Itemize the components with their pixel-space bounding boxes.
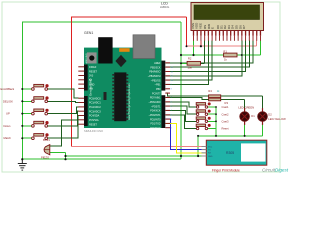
svg-text:DEL/OK: DEL/OK	[3, 99, 13, 103]
svg-text:PD1/TXD: PD1/TXD	[150, 123, 160, 126]
svg-text:3V3: 3V3	[89, 75, 94, 78]
svg-text:Genuino UNO: Genuino UNO	[89, 78, 93, 96]
svg-text:R1: R1	[223, 50, 227, 54]
svg-text:Finger Print Module: Finger Print Module	[212, 169, 240, 173]
svg-text:PD0/RXD: PD0/RXD	[150, 127, 161, 130]
svg-text:Down: Down	[4, 124, 11, 128]
svg-text:PC5/SCL: PC5/SCL	[89, 119, 100, 122]
svg-text:LCD: LCD	[161, 2, 168, 6]
svg-text:~PD5/T1: ~PD5/T1	[151, 105, 161, 108]
svg-text:AREF: AREF	[154, 62, 161, 65]
svg-text:PC2/ADC2: PC2/ADC2	[89, 106, 101, 109]
svg-text:0: 0	[171, 128, 173, 130]
svg-text:PB0: PB0	[156, 88, 161, 91]
svg-text:10k: 10k	[188, 66, 193, 70]
svg-text:PIEZO: PIEZO	[41, 156, 49, 160]
svg-text:D2: D2	[268, 113, 272, 117]
svg-text:PC3/ADC3: PC3/ADC3	[89, 110, 101, 113]
svg-text:RESET: RESET	[89, 123, 98, 126]
svg-text:PD7/AIN1: PD7/AIN1	[150, 97, 161, 100]
svg-text:LED-YELLOW: LED-YELLOW	[268, 117, 286, 121]
svg-text:~PB1: ~PB1	[155, 84, 162, 87]
svg-text:R3: R3	[225, 101, 229, 105]
svg-text:CircuitDigest: CircuitDigest	[262, 168, 289, 173]
svg-text:~PB3/MOSI: ~PB3/MOSI	[148, 75, 161, 78]
svg-text:PCINT7: PCINT7	[152, 92, 161, 95]
svg-text:~PB2/SS: ~PB2/SS	[151, 79, 161, 82]
svg-text:R2: R2	[188, 57, 192, 61]
svg-text:1k: 1k	[217, 90, 220, 93]
svg-text:SIMULINO UNO: SIMULINO UNO	[84, 129, 103, 133]
svg-text:IOREF: IOREF	[89, 66, 97, 69]
svg-text:BUZ1: BUZ1	[43, 138, 50, 142]
svg-text:GEN1: GEN1	[84, 31, 93, 35]
svg-text:PB4/MISO: PB4/MISO	[149, 71, 160, 74]
svg-text:R305: R305	[226, 151, 234, 155]
svg-text:VEE: VEE	[198, 23, 202, 29]
svg-text:ARDUINO: ARDUINO	[85, 53, 88, 63]
svg-text:1k: 1k	[224, 58, 227, 62]
svg-text:GND: GND	[208, 156, 213, 158]
svg-text:D1: D1	[251, 114, 255, 118]
svg-text:Enroll/Back: Enroll/Back	[1, 87, 15, 91]
svg-text:~PD3/INT1: ~PD3/INT1	[149, 114, 162, 117]
svg-text:E: E	[211, 27, 215, 29]
svg-text:PD4/XCK: PD4/XCK	[150, 110, 161, 113]
svg-text:2: 2	[171, 119, 173, 121]
svg-text:Cset2: Cset2	[222, 112, 230, 116]
svg-text:PD2/INT0: PD2/INT0	[150, 118, 161, 121]
svg-text:R4: R4	[208, 89, 212, 93]
svg-text:VCC: VCC	[208, 146, 213, 148]
svg-text:LM016L: LM016L	[160, 5, 170, 9]
svg-text:D7: D7	[242, 25, 246, 29]
svg-text:RESET: RESET	[89, 70, 98, 73]
svg-text:Cset3: Cset3	[222, 120, 230, 124]
svg-text:Cset1: Cset1	[222, 105, 230, 109]
svg-text:UP: UP	[6, 112, 10, 116]
svg-text:Reset: Reset	[222, 127, 229, 131]
svg-text:Match: Match	[4, 136, 12, 140]
svg-text:PC1/ADC1: PC1/ADC1	[89, 102, 101, 105]
svg-text:PC4/SDA: PC4/SDA	[89, 115, 100, 118]
svg-text:8: 8	[171, 89, 173, 91]
svg-text:PB5/SCK: PB5/SCK	[150, 66, 161, 69]
svg-text:~PD6/AIN0: ~PD6/AIN0	[148, 101, 161, 104]
svg-text:LED-GREEN: LED-GREEN	[238, 105, 254, 109]
svg-text:www.TheEngineeringProjects.com: www.TheEngineeringProjects.com	[128, 84, 131, 120]
svg-text:PC0/ADC0: PC0/ADC0	[89, 97, 101, 100]
